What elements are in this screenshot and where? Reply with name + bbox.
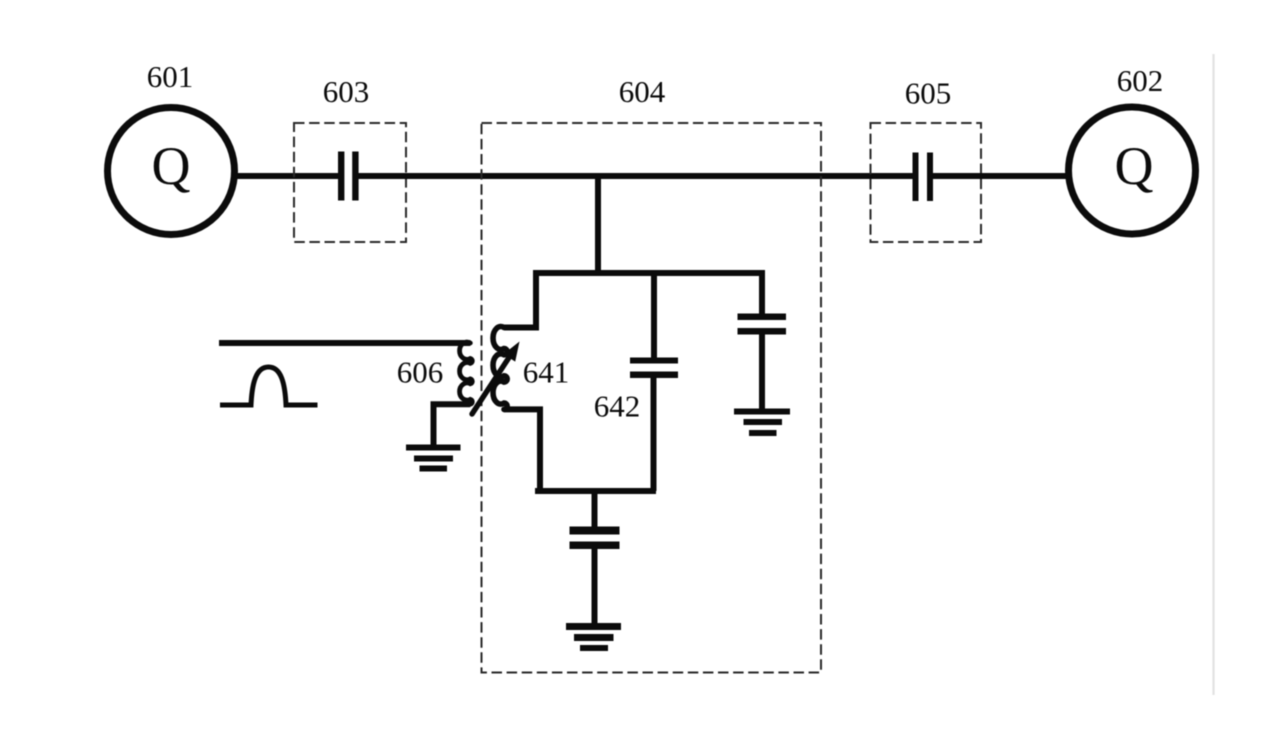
capacitor 603 left plate xyxy=(338,152,344,201)
transformer primary winding 606 xyxy=(460,342,473,404)
capacitor 642 bottom plate xyxy=(630,372,678,379)
wire main line right segment xyxy=(932,173,1066,179)
capacitor 642 top plate xyxy=(630,358,678,364)
svg-text:605: 605 xyxy=(905,76,952,111)
svg-text:602: 602 xyxy=(1117,63,1164,98)
arrow of variable inductor 641 xyxy=(472,358,509,415)
dashed box 603 xyxy=(294,123,406,242)
wire right capacitor lower lead xyxy=(759,334,765,409)
pulse waveform symbol xyxy=(220,367,318,405)
wire pulse input line xyxy=(219,340,470,346)
dashed box 605 xyxy=(871,123,982,242)
svg-text:603: 603 xyxy=(323,74,370,109)
ground bottom bar2 xyxy=(574,634,614,641)
wire vertical drop from main line xyxy=(595,176,601,273)
dashed box 604 xyxy=(482,123,822,673)
wire bottom capacitor lower lead xyxy=(592,549,598,624)
ground primary bar2 xyxy=(414,456,453,462)
svg-text:604: 604 xyxy=(619,74,666,109)
wire main line left segment xyxy=(234,173,340,179)
wire primary bottom lead xyxy=(434,404,471,446)
ground primary bar1 xyxy=(406,445,461,451)
wire secondary bottom lead xyxy=(504,409,540,491)
transformer secondary winding 641 xyxy=(493,327,507,410)
svg-text:Q: Q xyxy=(152,136,191,196)
wire secondary top lead xyxy=(504,270,536,328)
ground primary bar3 xyxy=(420,466,448,472)
right capacitor bottom plate xyxy=(738,328,787,335)
svg-text:642: 642 xyxy=(594,389,641,424)
svg-text:606: 606 xyxy=(397,355,444,390)
bottom capacitor bottom plate xyxy=(570,542,620,550)
wire branch to capacitor 642 xyxy=(651,273,657,358)
generator circle 601 xyxy=(108,108,235,235)
wire tank top bus xyxy=(533,270,765,276)
capacitor 603 right plate xyxy=(352,152,358,201)
ground right bar2 xyxy=(744,419,783,425)
wire lead to bottom capacitor xyxy=(592,491,598,528)
svg-text:601: 601 xyxy=(147,59,194,94)
ground right bar3 xyxy=(749,430,777,436)
wire branch to right capacitor xyxy=(759,273,765,315)
ground bottom bar3 xyxy=(580,645,608,651)
scan artifact faint line xyxy=(1212,54,1214,695)
right capacitor top plate xyxy=(738,314,787,321)
wire main line middle segment xyxy=(357,173,914,179)
generator circle 602 xyxy=(1069,107,1196,234)
svg-text:641: 641 xyxy=(523,355,570,390)
wire capacitor 642 lower lead xyxy=(651,378,657,491)
svg-text:Q: Q xyxy=(1115,136,1154,196)
bottom capacitor top plate xyxy=(570,527,620,535)
capacitor 605 right plate xyxy=(927,153,933,202)
wire tank bottom bus xyxy=(535,488,656,494)
ground right bar1 xyxy=(734,409,790,415)
ground bottom bar1 xyxy=(566,623,621,630)
capacitor 605 left plate xyxy=(913,153,919,202)
